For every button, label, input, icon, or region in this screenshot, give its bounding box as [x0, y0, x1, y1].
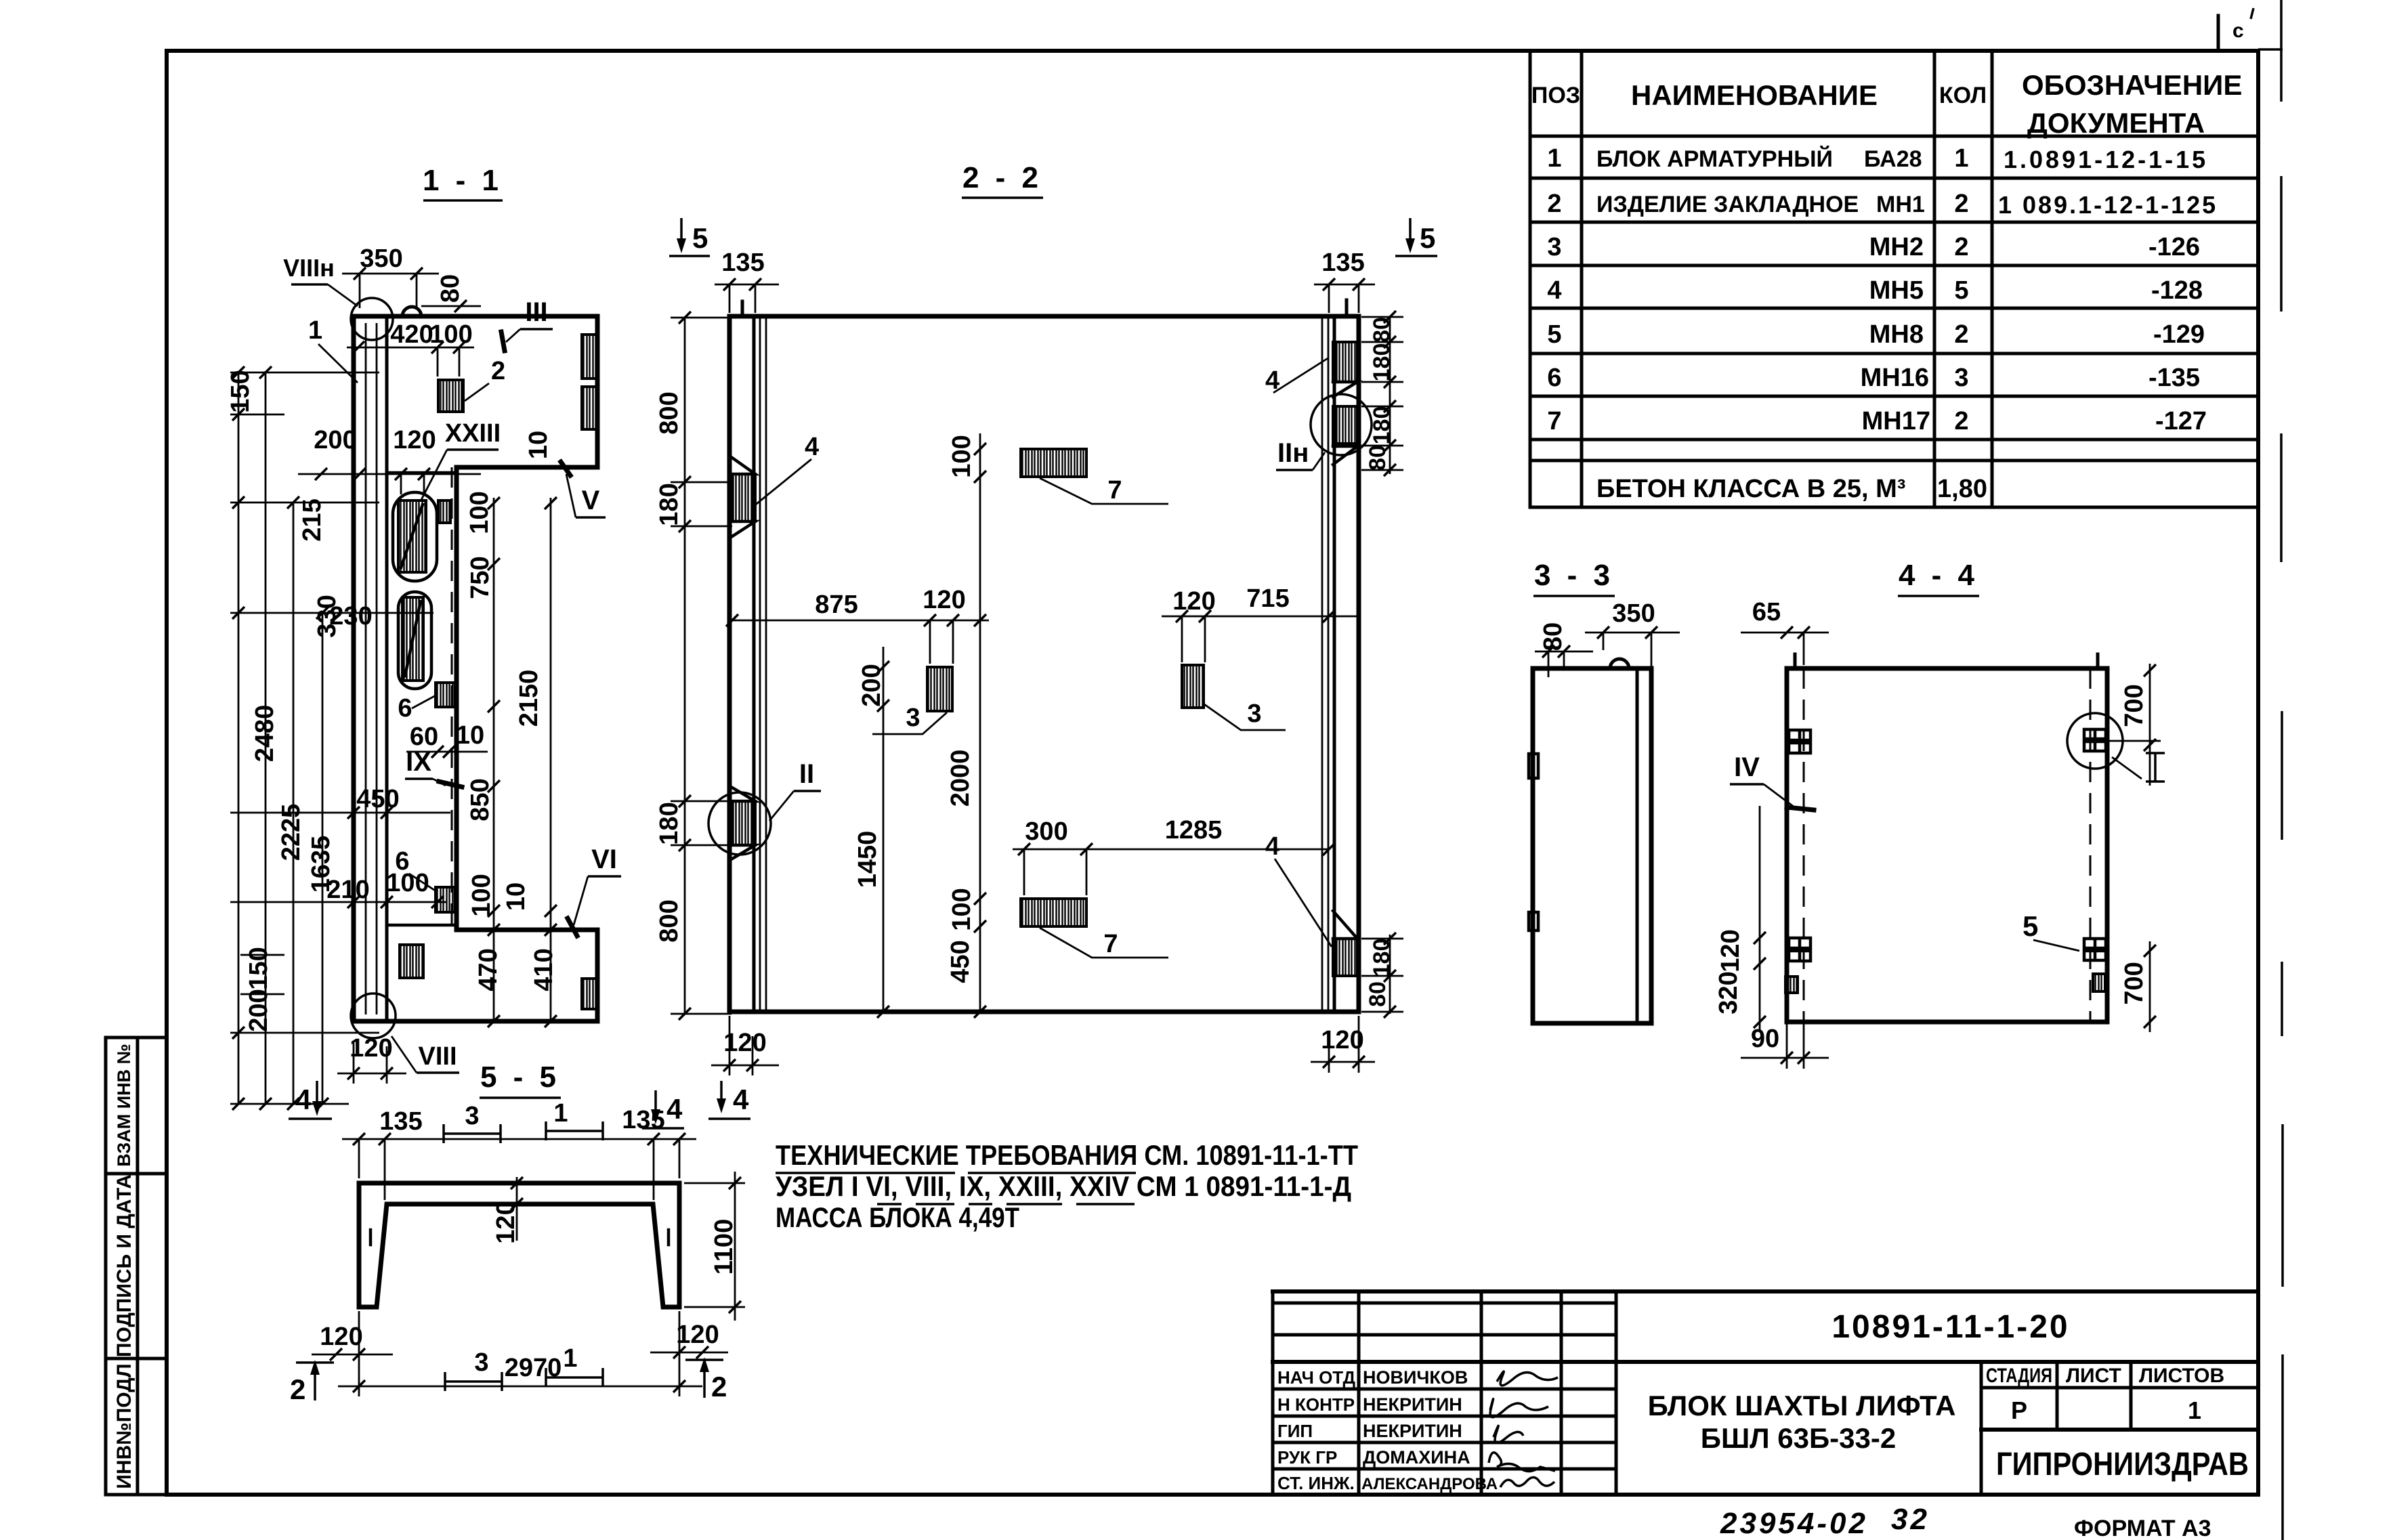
svg-text:1 089.1-12-1-125: 1 089.1-12-1-125: [1998, 191, 2218, 219]
svg-text:4: 4: [666, 1093, 683, 1125]
svg-text:135: 135: [379, 1107, 422, 1136]
svg-text:2000: 2000: [946, 750, 975, 807]
edge mark lower: [1529, 912, 1538, 931]
plate B right in circle: [1333, 406, 1357, 444]
svg-text:РУК ГР: РУК ГР: [1277, 1447, 1337, 1468]
svg-text:5: 5: [692, 222, 708, 254]
left outer dim chain: [684, 318, 686, 1014]
detail circle bottom VIII: [351, 993, 396, 1038]
svg-text:800: 800: [655, 391, 683, 434]
svg-text:КОЛ: КОЛ: [1939, 83, 1987, 108]
svg-text:4 - 4: 4 - 4: [1899, 559, 1978, 592]
svg-text:135: 135: [721, 249, 764, 277]
flange step bottom: [387, 925, 457, 930]
svg-text:3: 3: [1547, 233, 1561, 261]
svg-text:10: 10: [456, 721, 484, 750]
svg-text:МН16: МН16: [1861, 364, 1929, 392]
reinforcement lines: [366, 323, 377, 1014]
svg-text:4: 4: [1265, 832, 1279, 861]
svg-text:ТЕХНИЧЕСКИЕ ТРЕБОВАНИЯ СМ. 1: ТЕХНИЧЕСКИЕ ТРЕБОВАНИЯ СМ. 10891-11-1-ТТ: [776, 1139, 1358, 1171]
svg-text:210: 210: [326, 876, 369, 904]
svg-text:350: 350: [360, 244, 402, 273]
svg-text:1450: 1450: [853, 831, 882, 889]
svg-text:3: 3: [1247, 700, 1261, 728]
plate 3 right: [1182, 665, 1204, 708]
svg-text:32: 32: [1891, 1503, 1930, 1536]
plate 7 top: [1021, 449, 1086, 477]
lifting loop 3-3: [1610, 659, 1629, 668]
dim line 200 1450: [883, 647, 885, 1012]
section 4-4 outline: [1787, 668, 2107, 1022]
detail circle II: [708, 792, 771, 855]
plate 4 left top: [732, 474, 755, 521]
svg-text:4: 4: [1547, 276, 1561, 305]
marker 2 up left: [296, 1361, 334, 1364]
svg-text:300: 300: [1025, 817, 1067, 846]
svg-text:ГИПРОНИИЗДРАВ: ГИПРОНИИЗДРАВ: [1996, 1447, 2249, 1482]
svg-text:3: 3: [474, 1348, 488, 1377]
svg-text:-126: -126: [2148, 233, 2200, 261]
svg-text:ЛИСТОВ: ЛИСТОВ: [2139, 1365, 2224, 1387]
svg-text:150: 150: [245, 947, 273, 989]
label I node: [2146, 753, 2165, 782]
svg-text:ОБОЗНАЧЕНИЕ: ОБОЗНАЧЕНИЕ: [2022, 69, 2242, 101]
svg-text:МАССА БЛОКА 4,49Т: МАССА БЛОКА 4,49Т: [776, 1201, 1019, 1233]
notch top 2: [582, 387, 597, 429]
inner line: [1636, 668, 1639, 1023]
svg-text:700: 700: [2120, 684, 2148, 727]
svg-text:450: 450: [356, 785, 399, 813]
plate 7 bottom: [1021, 899, 1086, 926]
svg-text:1.0891-12-1-15: 1.0891-12-1-15: [2004, 146, 2208, 173]
plate in oval XXIV: [402, 597, 423, 681]
plate right bottom: [1333, 939, 1357, 976]
svg-text:5: 5: [1547, 320, 1561, 349]
marker 2 up right: [685, 1359, 723, 1361]
svg-text:100: 100: [465, 491, 494, 534]
leg mark left: [369, 1230, 373, 1245]
stub top left: [1794, 654, 1797, 668]
svg-text:АЛЕКСАНДРОВА: АЛЕКСАНДРОВА: [1361, 1475, 1498, 1493]
svg-text:БШЛ 63Б-33-2: БШЛ 63Б-33-2: [1701, 1422, 1896, 1454]
svg-text:Р: Р: [2011, 1396, 2027, 1424]
svg-text:10: 10: [524, 431, 553, 459]
svg-text:6: 6: [398, 694, 412, 723]
stray apostrophe: [2251, 8, 2253, 19]
svg-text:450: 450: [946, 940, 975, 983]
svg-text:420: 420: [390, 320, 433, 349]
svg-text:6: 6: [1547, 364, 1561, 392]
notch bottom: [582, 979, 597, 1009]
svg-text:ПОДПИСЬ И ДАТА: ПОДПИСЬ И ДАТА: [113, 1174, 135, 1357]
paper edge dashed line: [2281, 0, 2283, 1540]
svg-text:700: 700: [2120, 962, 2148, 1004]
right wall inner edge: [1333, 316, 1336, 1012]
lifting stub right: [1345, 300, 1349, 316]
svg-text:МН1: МН1: [1876, 192, 1925, 217]
section 5-5 outline: [359, 1183, 679, 1307]
svg-text:80: 80: [1369, 317, 1395, 343]
svg-text:ПОЗ: ПОЗ: [1531, 83, 1580, 108]
wall inner edge: [385, 316, 389, 1021]
svg-text:ВЗАМ ИНВ №: ВЗАМ ИНВ №: [114, 1044, 134, 1167]
svg-text:МН8: МН8: [1869, 320, 1924, 349]
svg-text:НЕКРИТИН: НЕКРИТИН: [1363, 1421, 1462, 1441]
hidden dashed line: [451, 467, 453, 930]
small plate right bottom: [2093, 974, 2105, 991]
svg-text:с: с: [2232, 20, 2244, 42]
svg-text:120: 120: [393, 426, 436, 454]
parts table: [1530, 51, 2258, 507]
svg-text:875: 875: [815, 591, 857, 619]
svg-text:2480: 2480: [251, 705, 279, 763]
svg-text:1,80: 1,80: [1937, 475, 1987, 503]
svg-text:ГИП: ГИП: [1277, 1421, 1313, 1441]
svg-text:2: 2: [290, 1373, 305, 1405]
dim line 2000: [979, 433, 981, 1012]
section 3-3 outline: [1533, 668, 1651, 1023]
right outer dim chain top: [1389, 317, 1391, 474]
plate lower lone: [400, 945, 423, 978]
svg-text:80: 80: [1365, 445, 1391, 471]
svg-text:ИЗДЕЛИЕ ЗАКЛАДНОЕ: ИЗДЕЛИЕ ЗАКЛАДНОЕ: [1596, 192, 1859, 217]
svg-text:НОВИЧКОВ: НОВИЧКОВ: [1363, 1367, 1468, 1388]
frame top extension: [2258, 48, 2283, 51]
svg-text:2225: 2225: [277, 804, 305, 861]
dashed line right: [2090, 668, 2092, 1022]
svg-text:3: 3: [465, 1102, 479, 1130]
svg-text:XXIII: XXIII: [445, 419, 501, 448]
svg-text:800: 800: [655, 899, 683, 942]
svg-text:БЛОК АРМАТУРНЫЙ: БЛОК АРМАТУРНЫЙ: [1596, 146, 1833, 172]
svg-text:230: 230: [329, 602, 372, 630]
svg-text:НАИМЕНОВАНИЕ: НАИМЕНОВАНИЕ: [1631, 79, 1878, 111]
svg-text:10: 10: [502, 882, 530, 911]
svg-text:100: 100: [467, 874, 496, 916]
svg-text:320: 320: [1714, 971, 1743, 1014]
svg-text:120: 120: [676, 1321, 719, 1349]
svg-text:180: 180: [1369, 406, 1395, 445]
svg-text:100: 100: [948, 435, 976, 477]
svg-text:2: 2: [1547, 190, 1561, 218]
embed plates right bottom: [2084, 939, 2106, 960]
tech requirements text: [776, 1139, 1358, 1233]
svg-text:2: 2: [1954, 407, 1968, 435]
svg-text:3 - 3: 3 - 3: [1534, 559, 1614, 592]
right outer dim chain bottom: [1389, 935, 1391, 1014]
svg-text:23954-02: 23954-02: [1720, 1507, 1868, 1540]
svg-text:180: 180: [1369, 343, 1395, 382]
svg-text:470: 470: [474, 948, 503, 991]
svg-text:100: 100: [948, 888, 976, 931]
svg-text:850: 850: [466, 778, 494, 821]
svg-text:IIн: IIн: [1277, 438, 1309, 468]
svg-text:V: V: [582, 486, 600, 515]
lifting stub left: [741, 301, 744, 316]
svg-text:1 - 1: 1 - 1: [423, 164, 503, 197]
lifting loop: [402, 307, 421, 316]
left dim chain lines: [238, 371, 322, 1104]
svg-text:2: 2: [1954, 190, 1968, 218]
svg-text:2: 2: [491, 357, 505, 385]
svg-text:350: 350: [1612, 599, 1655, 628]
sidebar stamp boxes: [106, 1038, 167, 1495]
svg-text:БЛОК ШАХТЫ ЛИФТА: БЛОК ШАХТЫ ЛИФТА: [1648, 1390, 1956, 1421]
svg-text:ИНВ№ПОДЛ: ИНВ№ПОДЛ: [113, 1363, 135, 1489]
svg-text:2150: 2150: [515, 670, 543, 727]
svg-text:3: 3: [1954, 364, 1968, 392]
svg-text:90: 90: [1751, 1025, 1779, 1053]
svg-text:4: 4: [805, 433, 819, 461]
detail circle top VIII: [351, 298, 393, 340]
svg-text:5 - 5: 5 - 5: [480, 1061, 560, 1094]
svg-text:III: III: [525, 297, 547, 327]
svg-text:Н КОНТР: Н КОНТР: [1277, 1394, 1355, 1415]
right wall thin lines: [1322, 316, 1328, 1012]
plate 2: [438, 380, 463, 412]
svg-text:1: 1: [308, 316, 322, 345]
plate 6 upper: [436, 683, 455, 707]
svg-text:7: 7: [1103, 930, 1118, 958]
marker 5 down left: [680, 218, 683, 247]
svg-text:5: 5: [1954, 276, 1968, 305]
svg-text:180: 180: [655, 802, 683, 844]
svg-text:НЕКРИТИН: НЕКРИТИН: [1363, 1394, 1462, 1415]
svg-text:СТ. ИНЖ.: СТ. ИНЖ.: [1277, 1473, 1355, 1493]
svg-text:-128: -128: [2151, 276, 2203, 305]
svg-text:2: 2: [711, 1371, 727, 1403]
edge mark upper: [1529, 754, 1538, 778]
svg-text:4: 4: [733, 1084, 749, 1115]
svg-text:II: II: [799, 759, 814, 789]
svg-text:10891-11-1-20: 10891-11-1-20: [1831, 1309, 2069, 1345]
svg-text:215: 215: [298, 498, 326, 541]
svg-text:1: 1: [563, 1344, 577, 1373]
svg-text:2: 2: [1954, 233, 1968, 261]
svg-text:7: 7: [1547, 407, 1561, 435]
plate 6 lower: [436, 887, 455, 912]
oval detail XXIV: [398, 592, 431, 689]
svg-text:200: 200: [314, 426, 356, 454]
svg-text:VIIIн: VIIIн: [283, 254, 335, 282]
embed plates right top: [2084, 729, 2106, 751]
svg-text:IV: IV: [1734, 752, 1760, 782]
left wall thin lines: [760, 316, 766, 1012]
svg-text:НАЧ ОТД: НАЧ ОТД: [1277, 1367, 1356, 1388]
svg-text:УЗЕЛ I VI, VIII, IX, XXIII, X: УЗЕЛ I VI, VIII, IX, XXIII, XXIV СМ 1 08…: [776, 1170, 1351, 1202]
svg-text:СТАДИЯ: СТАДИЯ: [1986, 1365, 2052, 1387]
section 2-2 outline: [729, 316, 1359, 1012]
embed plates top left: [1789, 730, 1810, 753]
svg-text:ЛИСТ: ЛИСТ: [2066, 1365, 2121, 1387]
svg-text:5: 5: [1420, 222, 1435, 254]
dashed line left: [1803, 668, 1805, 1022]
svg-text:135: 135: [1321, 249, 1364, 277]
title block: [1273, 1291, 2258, 1495]
svg-text:80: 80: [1365, 981, 1391, 1007]
svg-text:3: 3: [906, 704, 920, 732]
embed plates bottom left: [1789, 938, 1810, 961]
svg-text:БЕТОН КЛАССА В 25, М³: БЕТОН КЛАССА В 25, М³: [1596, 475, 1905, 503]
svg-text:1: 1: [2188, 1396, 2201, 1424]
detail circle IIn: [1311, 394, 1372, 455]
section 1-1 outline: [354, 316, 597, 1021]
plate in oval XXIII: [398, 500, 426, 572]
svg-text:120: 120: [923, 586, 965, 614]
plate 4 left in circle: [732, 801, 755, 845]
small plate right of oval: [438, 500, 450, 523]
right inner dim lines: [494, 498, 551, 1021]
plate A right top: [1333, 342, 1357, 382]
svg-text:2 - 2: 2 - 2: [962, 161, 1042, 194]
marker 5 down right: [1409, 218, 1412, 247]
svg-text:ФОРМАТ А3: ФОРМАТ А3: [2074, 1516, 2211, 1540]
svg-text:4: 4: [295, 1084, 312, 1115]
svg-text:100: 100: [386, 869, 429, 897]
svg-text:715: 715: [1246, 584, 1289, 613]
stub top right: [2096, 654, 2100, 668]
leg mark right: [667, 1230, 671, 1245]
flange step top: [387, 467, 457, 473]
svg-text:120: 120: [1321, 1026, 1363, 1054]
svg-text:IX: IX: [406, 747, 431, 777]
marker 4 down right of 5-5: [654, 1090, 657, 1117]
svg-text:МН17: МН17: [1862, 407, 1930, 435]
svg-text:2: 2: [1954, 320, 1968, 349]
svg-text:180: 180: [655, 483, 683, 526]
svg-text:7: 7: [1107, 476, 1122, 505]
oval detail XXIII: [393, 492, 437, 581]
svg-text:65: 65: [1752, 598, 1781, 626]
svg-text:1: 1: [1547, 144, 1561, 173]
marker 4 down left of 5-5: [316, 1081, 318, 1109]
svg-text:1285: 1285: [1165, 816, 1223, 844]
svg-text:5: 5: [2023, 910, 2038, 942]
svg-text:2970: 2970: [505, 1354, 562, 1382]
svg-text:ДОКУМЕНТА: ДОКУМЕНТА: [2027, 107, 2205, 139]
svg-text:1: 1: [1954, 144, 1968, 173]
svg-text:410: 410: [530, 948, 558, 991]
svg-text:120: 120: [320, 1323, 362, 1351]
svg-text:120: 120: [1716, 929, 1745, 972]
svg-text:БА28: БА28: [1864, 146, 1922, 172]
svg-text:-127: -127: [2155, 407, 2207, 435]
svg-text:-129: -129: [2153, 320, 2205, 349]
svg-text:МН5: МН5: [1869, 276, 1924, 305]
notch top 1: [582, 335, 597, 379]
svg-text:-135: -135: [2148, 364, 2200, 392]
plate 3 left: [927, 667, 952, 711]
left wall inner edge: [753, 316, 756, 1012]
detail circle right: [2067, 713, 2123, 769]
corner tick top right: [2217, 16, 2220, 49]
svg-text:150: 150: [226, 370, 255, 412]
small plate bottom left: [1785, 977, 1798, 993]
marker 4 down bottom: [720, 1081, 723, 1107]
svg-text:ДОМАХИНА: ДОМАХИНА: [1363, 1447, 1470, 1468]
svg-text:1: 1: [553, 1099, 568, 1128]
svg-text:VIII: VIII: [418, 1042, 457, 1071]
svg-text:VI: VI: [591, 844, 617, 874]
svg-text:200: 200: [245, 989, 273, 1031]
signatures: [1497, 1371, 1558, 1386]
svg-text:750: 750: [466, 556, 494, 599]
svg-text:80: 80: [436, 274, 465, 303]
svg-text:200: 200: [857, 664, 886, 706]
svg-text:180: 180: [1369, 939, 1395, 977]
svg-text:МН2: МН2: [1869, 233, 1924, 261]
svg-text:100: 100: [429, 320, 472, 349]
